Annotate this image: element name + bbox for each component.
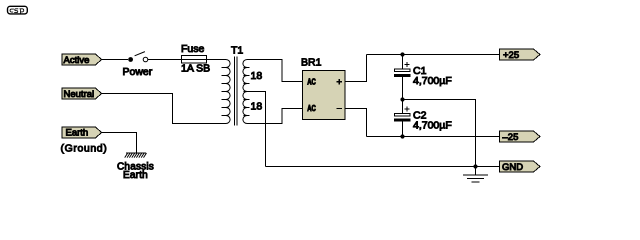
wire fuse to transformer primary bbox=[207, 59, 226, 61]
svg-text:Neutral: Neutral bbox=[64, 89, 95, 100]
chassis earth symbol bbox=[117, 153, 154, 181]
svg-text:4,700µF: 4,700µF bbox=[413, 75, 452, 87]
port -25 bbox=[500, 131, 541, 143]
bridge rectifier BR1 bbox=[301, 56, 345, 119]
wire BR1 - to -25 rail bbox=[345, 109, 367, 137]
svg-text:18: 18 bbox=[251, 70, 263, 82]
svg-text:AC: AC bbox=[307, 104, 316, 113]
svg-text:Earth: Earth bbox=[123, 170, 148, 181]
port +25 bbox=[500, 49, 541, 61]
svg-text:T1: T1 bbox=[231, 44, 243, 56]
node C2 bottom junction bbox=[400, 134, 404, 138]
switch S (Power) bbox=[123, 52, 153, 78]
svg-text:Power: Power bbox=[123, 66, 153, 78]
port Earth bbox=[62, 127, 102, 139]
svg-text:GND: GND bbox=[502, 162, 523, 173]
wire midpoint to GND vertical bbox=[403, 100, 476, 167]
node C1 top junction bbox=[400, 52, 404, 56]
wire +25 rail bbox=[367, 54, 500, 56]
port Neutral bbox=[62, 88, 102, 100]
wire secondary tap to GND rail bbox=[244, 92, 266, 167]
wire BR1 + to +25 rail bbox=[345, 55, 367, 82]
ground symbol bbox=[463, 167, 488, 183]
wire Earth to chassis bbox=[102, 133, 137, 154]
capacitor C1 4,700uF bbox=[394, 55, 452, 100]
port GND bbox=[500, 161, 541, 173]
wire secondary bottom to BR1 AC2 bbox=[247, 109, 302, 124]
svg-text:1A SB: 1A SB bbox=[181, 63, 210, 75]
fuse F1 1A SB bbox=[181, 43, 210, 75]
node GND junction bbox=[473, 164, 477, 168]
svg-text:Fuse: Fuse bbox=[181, 43, 205, 55]
port Active bbox=[62, 54, 102, 66]
node C1/C2 midpoint junction bbox=[400, 97, 404, 101]
wire Active tag to switch bbox=[102, 59, 129, 61]
svg-text:–25: –25 bbox=[503, 132, 519, 143]
transformer core bbox=[235, 57, 238, 126]
primary winding bbox=[226, 60, 230, 124]
svg-text:AC: AC bbox=[307, 77, 316, 86]
wire switch to fuse bbox=[148, 59, 182, 61]
secondary winding bbox=[243, 60, 247, 124]
wire GND rail bbox=[266, 166, 500, 168]
capacitor C2 4,700uF bbox=[394, 100, 452, 137]
svg-text:4,700µF: 4,700µF bbox=[413, 120, 452, 132]
svg-text:18: 18 bbox=[251, 101, 263, 113]
svg-text:(Ground): (Ground) bbox=[61, 143, 108, 155]
wire secondary top to BR1 AC1 bbox=[247, 60, 302, 82]
svg-text:Active: Active bbox=[64, 55, 90, 66]
wire -25 rail bbox=[367, 136, 500, 138]
ESP logo bbox=[8, 6, 28, 14]
svg-text:+25: +25 bbox=[503, 50, 519, 61]
transformer T1 bbox=[222, 44, 263, 125]
wire Neutral to primary bottom bbox=[102, 94, 226, 124]
svg-text:BR1: BR1 bbox=[301, 56, 322, 68]
svg-text:Earth: Earth bbox=[66, 128, 89, 139]
